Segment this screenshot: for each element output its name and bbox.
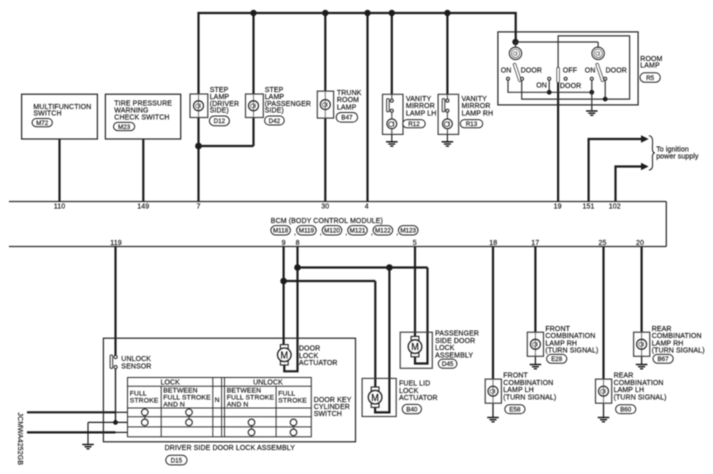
svg-text:LOCK: LOCK	[435, 345, 455, 352]
svg-text:ON: ON	[536, 83, 547, 90]
svg-text:M120: M120	[324, 228, 340, 235]
svg-text:DOOR: DOOR	[299, 346, 320, 353]
svg-text:LAMP RH: LAMP RH	[545, 340, 577, 347]
svg-text:FRONT: FRONT	[545, 326, 570, 333]
svg-text:MIRROR: MIRROR	[406, 103, 435, 110]
svg-text:D42: D42	[269, 118, 281, 125]
svg-text:OFF: OFF	[563, 67, 577, 74]
svg-text:SIDE): SIDE)	[265, 108, 284, 115]
svg-text:To ignition: To ignition	[656, 146, 689, 153]
svg-text:WARNING: WARNING	[114, 107, 148, 114]
svg-text:E28: E28	[551, 356, 563, 363]
svg-text:,: ,	[320, 230, 322, 237]
svg-text:M23: M23	[118, 124, 131, 131]
svg-text:VANITY: VANITY	[406, 96, 432, 103]
svg-text:B47: B47	[341, 115, 353, 122]
svg-text:COMBINATION: COMBINATION	[503, 380, 553, 387]
svg-text:VANITY: VANITY	[462, 96, 488, 103]
svg-text:LOCK: LOCK	[299, 353, 319, 360]
svg-text:7: 7	[197, 204, 201, 211]
svg-text:4: 4	[365, 204, 369, 211]
svg-text:BETWEEN: BETWEEN	[227, 387, 261, 394]
svg-text:DOOR: DOOR	[606, 67, 627, 74]
svg-text:SWITCH: SWITCH	[314, 411, 342, 418]
svg-text:B60: B60	[620, 406, 632, 413]
svg-text:CYLINDER: CYLINDER	[314, 404, 350, 411]
svg-text:M121: M121	[350, 228, 366, 235]
svg-text:B67: B67	[657, 356, 669, 363]
svg-text:STROKE: STROKE	[278, 398, 307, 405]
svg-text:LAMP LH: LAMP LH	[503, 387, 534, 394]
svg-text:M122: M122	[375, 228, 391, 235]
svg-text:STROKE: STROKE	[130, 398, 159, 405]
svg-text:DRIVER SIDE DOOR LOCK ASSEMBLY: DRIVER SIDE DOOR LOCK ASSEMBLY	[165, 445, 296, 452]
svg-text:LOCK: LOCK	[399, 388, 419, 395]
svg-text:FULL: FULL	[130, 391, 147, 398]
svg-text:DOOR KEY: DOOR KEY	[314, 397, 352, 404]
svg-text:18: 18	[489, 240, 497, 247]
svg-text:151: 151	[583, 204, 595, 211]
svg-text:D15: D15	[171, 457, 183, 464]
svg-text:ACTUATOR: ACTUATOR	[299, 360, 338, 367]
svg-text:(TURN SIGNAL): (TURN SIGNAL)	[614, 394, 667, 401]
svg-text:19: 19	[554, 204, 562, 211]
svg-text:FUEL LID: FUEL LID	[399, 381, 430, 388]
svg-text:UNLOCK: UNLOCK	[121, 356, 151, 363]
svg-text:TRUNK: TRUNK	[337, 90, 362, 97]
svg-text:REAR: REAR	[652, 326, 672, 333]
svg-text:ON: ON	[585, 67, 596, 74]
svg-text:9: 9	[282, 240, 286, 247]
svg-text:17: 17	[531, 240, 539, 247]
svg-text:FULL STROKE: FULL STROKE	[227, 394, 275, 401]
svg-text:25: 25	[599, 240, 607, 247]
svg-text:R13: R13	[466, 121, 478, 128]
svg-text:R12: R12	[408, 121, 420, 128]
svg-text:M: M	[411, 342, 419, 353]
svg-text:JCMWA4252GB: JCMWA4252GB	[16, 413, 23, 466]
svg-text:LAMP LH: LAMP LH	[614, 387, 645, 394]
svg-text:M119: M119	[299, 228, 315, 235]
svg-text:LOCK: LOCK	[160, 379, 180, 386]
svg-text:REAR: REAR	[614, 373, 634, 380]
svg-text:SENSOR: SENSOR	[121, 363, 151, 370]
svg-text:R5: R5	[646, 75, 655, 82]
svg-text:ACTUATOR: ACTUATOR	[399, 395, 438, 402]
svg-text:FULL: FULL	[278, 391, 295, 398]
svg-text:COMBINATION: COMBINATION	[545, 333, 595, 340]
svg-text:,: ,	[294, 230, 296, 237]
svg-text:110: 110	[54, 204, 65, 211]
svg-text:MIRROR: MIRROR	[462, 103, 491, 110]
svg-text:PASSENGER: PASSENGER	[435, 331, 479, 338]
svg-text:LAMP RH: LAMP RH	[462, 110, 494, 117]
svg-text:ROOM: ROOM	[337, 97, 359, 104]
svg-text:LAMP RH: LAMP RH	[652, 340, 684, 347]
svg-text:UNLOCK: UNLOCK	[253, 379, 283, 386]
svg-text:M: M	[371, 393, 379, 404]
svg-text:8: 8	[296, 240, 300, 247]
svg-text:N: N	[215, 397, 220, 404]
svg-text:102: 102	[609, 204, 621, 211]
svg-text:LAMP LH: LAMP LH	[406, 110, 437, 117]
svg-text:M72: M72	[36, 120, 49, 127]
svg-text:ON: ON	[501, 67, 512, 74]
svg-text:119: 119	[110, 240, 121, 247]
svg-text:ASSEMBLY: ASSEMBLY	[435, 352, 473, 359]
svg-text:SIDE): SIDE)	[210, 108, 229, 115]
svg-text:D12: D12	[214, 118, 226, 125]
svg-text:FULL STROKE: FULL STROKE	[163, 394, 211, 401]
svg-text:30: 30	[321, 204, 329, 211]
svg-text:(TURN SIGNAL): (TURN SIGNAL)	[503, 394, 556, 401]
svg-text:CHECK SWITCH: CHECK SWITCH	[114, 115, 169, 122]
svg-text:BCM (BODY CONTROL MODULE): BCM (BODY CONTROL MODULE)	[271, 218, 383, 225]
svg-text:power supply: power supply	[656, 153, 699, 160]
svg-text:D45: D45	[442, 361, 454, 368]
svg-text:SWITCH: SWITCH	[33, 111, 61, 118]
svg-text:BETWEEN: BETWEEN	[163, 387, 197, 394]
svg-text:5: 5	[413, 240, 417, 247]
svg-text:M123: M123	[400, 228, 416, 235]
svg-text:DOOR: DOOR	[560, 83, 581, 90]
svg-text:149: 149	[137, 204, 149, 211]
svg-text:M: M	[281, 350, 289, 361]
svg-text:TIRE PRESSURE: TIRE PRESSURE	[114, 100, 172, 107]
svg-text:B40: B40	[406, 406, 418, 413]
svg-text:(TURN SIGNAL): (TURN SIGNAL)	[545, 348, 598, 355]
svg-text:COMBINATION: COMBINATION	[614, 380, 664, 387]
svg-text:,: ,	[345, 230, 347, 237]
svg-text:AND N: AND N	[163, 402, 185, 409]
svg-text:LAMP: LAMP	[337, 104, 357, 111]
svg-text:20: 20	[636, 240, 644, 247]
svg-text:E58: E58	[509, 406, 521, 413]
svg-text:DOOR: DOOR	[521, 67, 542, 74]
svg-text:FRONT: FRONT	[503, 373, 528, 380]
svg-text:(TURN SIGNAL): (TURN SIGNAL)	[652, 348, 705, 355]
svg-text:SIDE DOOR: SIDE DOOR	[435, 338, 475, 345]
svg-text:AND N: AND N	[227, 402, 249, 409]
svg-text:M118: M118	[273, 228, 289, 235]
svg-text:LAMP: LAMP	[640, 63, 660, 70]
svg-text:COMBINATION: COMBINATION	[652, 333, 702, 340]
